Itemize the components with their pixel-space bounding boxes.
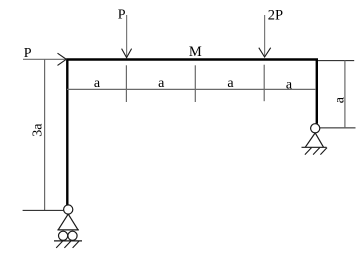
node P left arrowhead	[58, 53, 67, 65]
svg-text:3a: 3a	[30, 123, 45, 137]
node left roller 1	[59, 231, 68, 240]
wire frame: beam and columns (thick members)	[67, 60, 316, 205]
svg-text:a: a	[158, 76, 165, 91]
wire separator tick 3	[263, 65, 265, 102]
node P arrowhead	[122, 49, 132, 58]
wire right vertical dimension line (a)	[344, 61, 346, 128]
svg-text:M: M	[189, 44, 202, 60]
ground left hatching	[56, 241, 79, 248]
wire P down arrow shaft	[126, 15, 128, 57]
wire dimension line below beam	[67, 88, 316, 90]
wire separator tick 2	[194, 65, 196, 102]
svg-text:a: a	[286, 77, 293, 92]
svg-text:a: a	[227, 76, 234, 91]
svg-text:a: a	[94, 76, 101, 91]
node left pin circle	[64, 205, 73, 214]
wire separator tick 1	[125, 65, 127, 102]
node left roller 2	[68, 231, 77, 240]
wire right bottom extension line	[320, 127, 356, 129]
wire right top extension line	[318, 60, 354, 62]
wire 2P down arrow shaft	[264, 15, 266, 56]
ground right hatching	[305, 148, 327, 155]
node right support triangle	[305, 133, 323, 147]
wire dimension line left (3a extension top / P force line)	[23, 58, 66, 60]
svg-text:P: P	[118, 8, 126, 23]
ground left line	[54, 240, 82, 242]
node right pin circle	[311, 124, 320, 133]
svg-text:2P: 2P	[268, 8, 283, 24]
svg-text:a: a	[333, 96, 348, 103]
node 2P arrowhead	[259, 48, 271, 57]
wire bottom-left extension line	[23, 209, 64, 211]
ground right line	[302, 146, 327, 148]
wire 3a vertical dimension line	[44, 59, 46, 210]
svg-text:P: P	[24, 46, 32, 61]
node left support triangle	[57, 214, 79, 230]
